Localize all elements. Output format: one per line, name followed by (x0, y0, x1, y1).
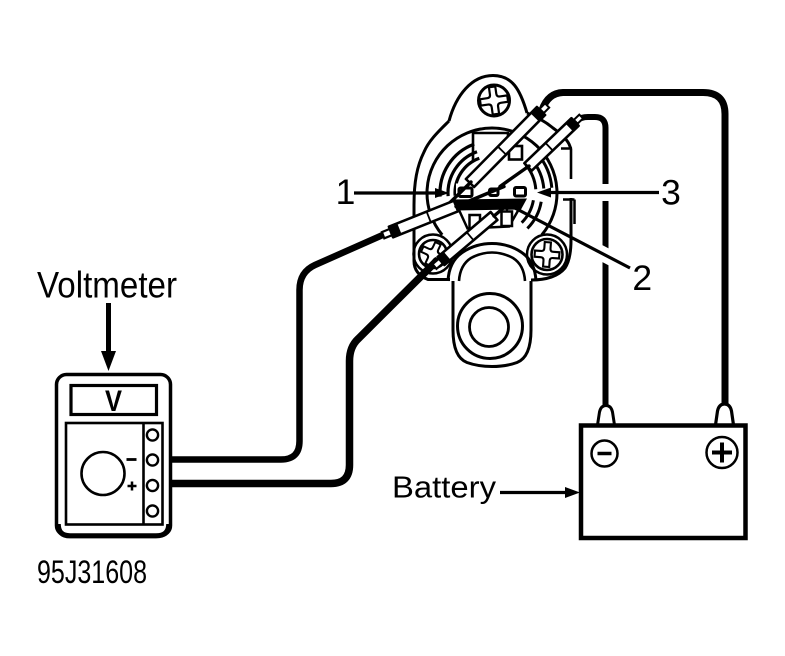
probe C seam (427, 212, 431, 222)
probe D butt cap (438, 252, 451, 265)
right screw circle (532, 239, 563, 270)
connector key square (509, 146, 522, 160)
pin 3 (515, 188, 526, 197)
probe D nub (433, 259, 444, 269)
connector tooth left (470, 215, 481, 230)
probe A needle (447, 182, 471, 206)
probe C needle (456, 187, 504, 207)
battery terminal left (598, 406, 615, 426)
svg-text:3: 3 (661, 173, 681, 213)
voltmeter terminal 4 (147, 505, 158, 516)
svg-text:V: V (105, 385, 122, 418)
wire voltmeter minus to probe C (157, 234, 386, 460)
sensor barrel (453, 281, 531, 367)
voltmeter panel divider (142, 423, 145, 525)
sensor flange right ledge (561, 149, 572, 180)
voltmeter label arrow (106, 303, 111, 352)
voltmeter bottom heavy edge (58, 524, 169, 536)
svg-text:Voltmeter: Voltmeter (37, 265, 177, 306)
battery terminal right (716, 404, 734, 425)
svg-text:1: 1 (336, 172, 356, 212)
svg-text:2: 2 (632, 258, 652, 298)
right screw boss circle (527, 235, 567, 275)
connector boot arcs right upper (526, 154, 552, 189)
battery label arrow (500, 491, 566, 494)
probe D body (438, 212, 498, 265)
probe A seam (498, 147, 506, 155)
left screw circle (419, 240, 447, 268)
voltmeter dial (82, 452, 125, 495)
pin 3 arrow (549, 191, 659, 194)
top screw phillips cross (478, 85, 509, 116)
voltmeter display window (71, 386, 157, 415)
top screw circle (479, 85, 510, 116)
probe B butt cap (566, 118, 579, 131)
svg-text:Battery: Battery (392, 470, 497, 505)
sensor flange right top edge (527, 113, 571, 149)
probe B body (524, 118, 578, 171)
probe D needle (494, 206, 506, 216)
voltmeter plus mark (128, 482, 137, 491)
dome arch over barrel inner (459, 253, 525, 282)
connector boot arcs left (440, 144, 479, 197)
battery minus sign (598, 452, 612, 456)
connector black band below pins (452, 199, 527, 211)
white band behind pin row (456, 184, 530, 200)
probe A body (466, 107, 545, 187)
connector lower trapezoid (459, 209, 519, 229)
probe B seam (546, 143, 553, 150)
battery BT1 box (581, 426, 746, 539)
right screw phillips cross (534, 241, 560, 267)
voltmeter inner panel (66, 423, 163, 525)
voltmeter terminal 2 (147, 454, 158, 465)
sensor face inner circle (470, 308, 509, 347)
wire battery plus to probe A (542, 93, 725, 407)
probe C body (389, 201, 458, 238)
pin 1 arrow (354, 191, 436, 194)
wire battery minus to probe B (577, 117, 606, 407)
pin 1 (459, 188, 472, 197)
battery plus terminal circle (707, 437, 738, 468)
pin 2 arrow (511, 206, 630, 268)
sensor flange right edge lower (531, 198, 571, 280)
voltmeter minus mark (127, 458, 137, 461)
probe D seam (467, 232, 474, 240)
battery minus terminal circle (592, 441, 618, 467)
pin 2 (490, 189, 499, 196)
voltmeter terminal 3 (147, 480, 158, 491)
connector key tab (473, 133, 508, 161)
connector boot arcs right lower (522, 200, 542, 228)
connector tooth right (502, 212, 513, 227)
left screw boss circle (414, 235, 453, 274)
probe A butt cap (531, 107, 546, 121)
sensor flange left edge (414, 121, 450, 280)
svg-text:95J31608: 95J31608 (37, 554, 147, 590)
sensor mounting ear (449, 76, 527, 122)
sensor flange right bracket detail (563, 200, 575, 225)
battery plus sign (712, 443, 732, 463)
left screw phillips cross (417, 238, 448, 269)
probe A nub (540, 103, 550, 113)
wire voltmeter plus to probe D (157, 260, 438, 484)
probe C butt cap (389, 223, 402, 237)
probe B nub (574, 115, 583, 124)
voltmeter terminal 1 (147, 429, 158, 440)
sensor big circle (427, 128, 557, 235)
probe C nub (382, 229, 392, 238)
pin 3 arrow white casing (598, 184, 614, 201)
pin 2 arrow white casing (596, 250, 616, 261)
voltmeter M1 body (57, 375, 171, 536)
sensor face outer circle (458, 294, 523, 359)
probe B needle (500, 166, 529, 187)
dome arch over barrel outer (448, 244, 536, 282)
